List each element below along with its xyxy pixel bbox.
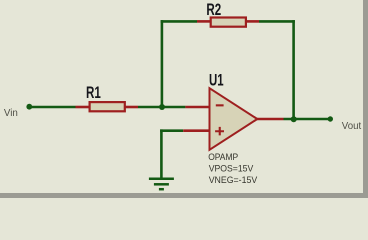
wire R2 left lead (red) — [197, 20, 211, 23]
svg-text:U1: U1 — [209, 72, 224, 90]
wire R1 left lead (red) — [76, 106, 90, 109]
node A junction dot — [159, 104, 165, 110]
wire feedback top left (green) — [161, 20, 197, 23]
op-amp plus sign — [215, 127, 224, 135]
resistor R1 — [90, 102, 125, 111]
wire feedback top right (green) — [259, 20, 295, 23]
svg-text:R1: R1 — [86, 84, 101, 102]
svg-text:Vout: Vout — [342, 121, 362, 132]
svg-text:VNEG=-15V: VNEG=-15V — [209, 175, 258, 185]
wire output to Vout (green) — [284, 118, 331, 121]
node Vin terminal dot — [26, 104, 32, 110]
svg-text:R2: R2 — [206, 1, 221, 19]
wire feedback vertical right (green) — [292, 20, 295, 119]
wire op-amp inverting input lead (red) — [185, 106, 210, 109]
node Vout terminal dot — [328, 116, 333, 121]
svg-text:OPAMP: OPAMP — [208, 152, 238, 162]
op-amp U1 body — [210, 88, 258, 150]
wire op-amp output lead (red) — [256, 118, 284, 121]
wire ground vertical (green) — [160, 129, 163, 178]
svg-text:VPOS=15V: VPOS=15V — [209, 164, 254, 174]
op-amp minus sign — [216, 104, 224, 106]
svg-text:Vin: Vin — [4, 108, 18, 119]
wire R1 right lead (red) — [125, 106, 138, 109]
resistor R2 — [211, 18, 246, 27]
wire R1 to node A (green) — [138, 106, 185, 109]
wire noninverting input horizontal (green) — [160, 129, 183, 132]
wire Vin to R1 (green) — [29, 106, 76, 109]
node output junction dot — [291, 116, 297, 122]
wire op-amp noninverting input lead (red) — [183, 129, 210, 132]
wire R2 right lead (red) — [246, 20, 259, 23]
ground — [149, 179, 174, 189]
wire feedback vertical left (green) — [161, 20, 164, 107]
